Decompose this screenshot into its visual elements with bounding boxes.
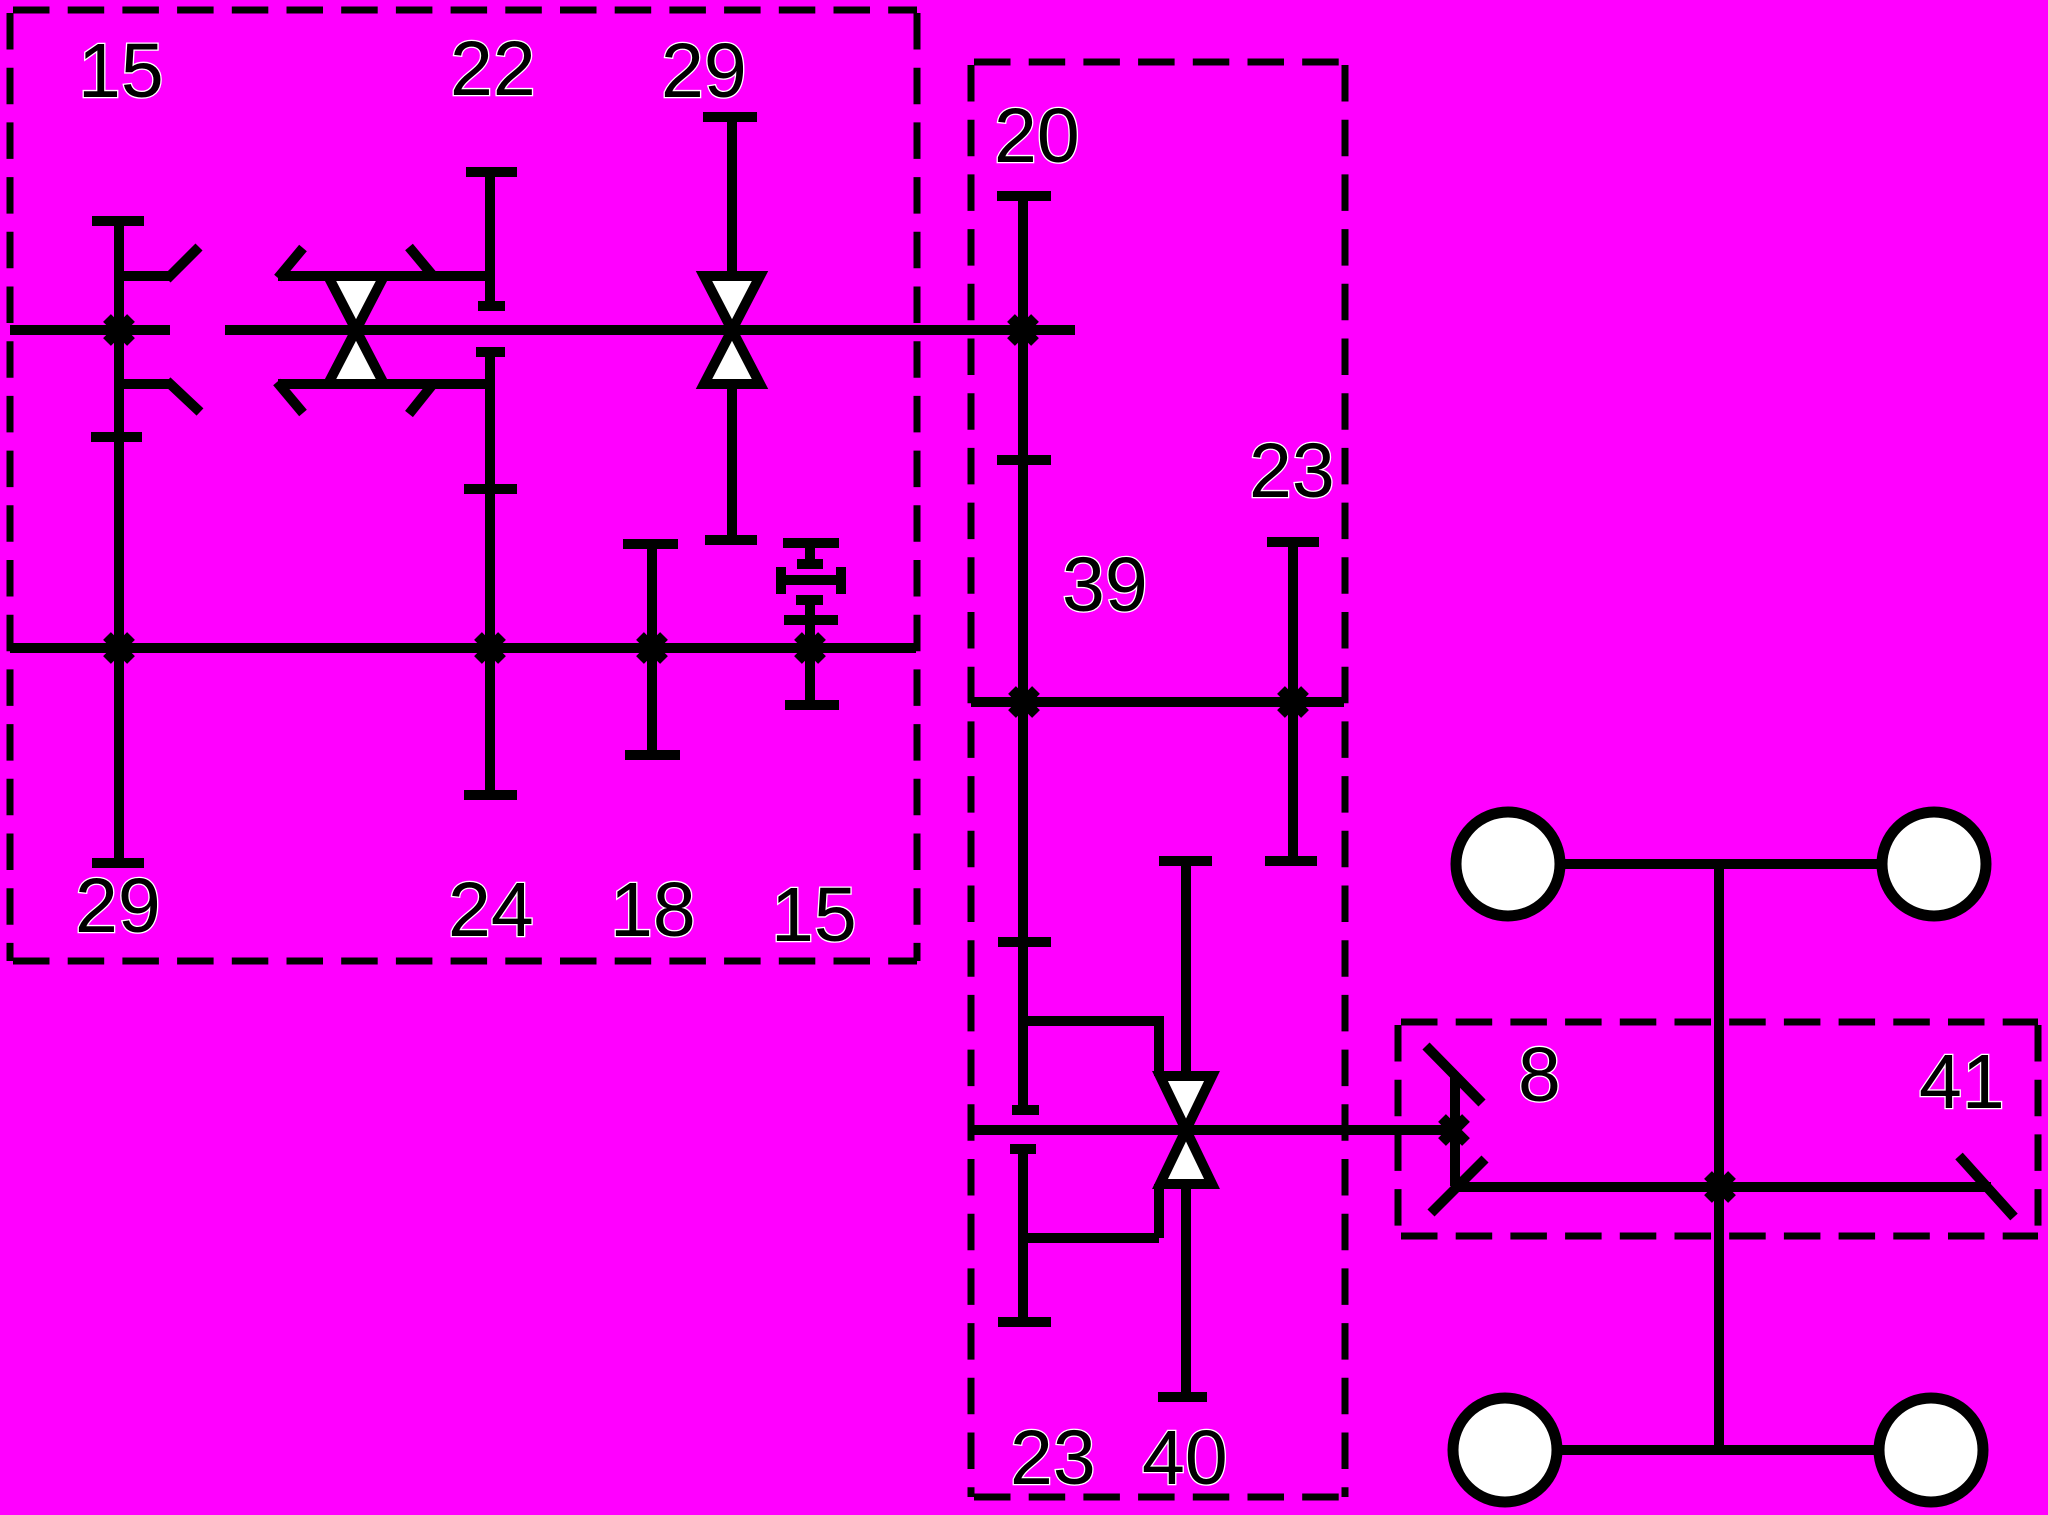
- wheel lower-left: [1453, 1398, 1557, 1502]
- gear 29 vertical: [703, 117, 757, 540]
- svg-text:29: 29: [661, 28, 747, 114]
- wire: input shaft segment B (y=330): [225, 325, 1075, 335]
- dashed box: gearbox unit 2 (middle): [971, 62, 1345, 1497]
- wheel upper-left: [1456, 812, 1560, 916]
- node countershaft/gear18: [640, 636, 664, 660]
- synchro 22 sleeve lines: [277, 247, 491, 414]
- synchro 22 bowtie: [328, 276, 384, 384]
- gear 15 on countershaft with coupler: [781, 543, 841, 705]
- axle: upper wheel axle: [1508, 859, 1934, 869]
- svg-text:29: 29: [75, 863, 161, 949]
- node shaft40/clutch8: [1442, 1118, 1466, 1142]
- lower hook link 23-40: [998, 1149, 1159, 1322]
- node shaft39/gear23: [1281, 690, 1305, 714]
- wheel upper-right: [1882, 812, 1986, 916]
- upper hook link 20-40: [1023, 1021, 1159, 1076]
- node input/gear20: [1011, 318, 1035, 342]
- node shaft41/driveline: [1708, 1175, 1732, 1199]
- dashed box: gearbox unit 1 (top-left): [10, 10, 917, 961]
- clutch 8: [1426, 1046, 1485, 1213]
- wire: shaft 41 (y=1187): [1457, 1182, 1991, 1192]
- svg-text:22: 22: [450, 26, 536, 112]
- axle: lower wheel axle: [1505, 1445, 1931, 1455]
- clutch 41 diagonal: [1959, 1156, 2014, 1217]
- axle: vertical driveline: [1714, 864, 1724, 1450]
- gear 23 vertical (upper): [1265, 542, 1319, 861]
- junction markers (x crosses): [107, 318, 1732, 1199]
- svg-text:41: 41: [1919, 1039, 2005, 1125]
- synchro 40 bowtie: [1160, 1076, 1212, 1184]
- dashed box: axle unit 3 (bottom-right): [1398, 1022, 2038, 1236]
- svg-text:15: 15: [771, 872, 857, 958]
- svg-text:8: 8: [1518, 1032, 1561, 1118]
- node countershaft/gear15: [798, 636, 822, 660]
- svg-text:20: 20: [994, 93, 1080, 179]
- gear 15/29 left vertical shaft: [91, 221, 144, 863]
- gear 40 vertical: [1158, 861, 1212, 1397]
- clutch jaws of gear 15 (open right): [124, 247, 200, 412]
- svg-text:23: 23: [1249, 428, 1335, 514]
- gear 22/24 vertical: [464, 172, 517, 795]
- wire: shaft of synchro 40 (y=1130): [971, 1125, 1449, 1135]
- svg-text:18: 18: [610, 867, 696, 953]
- node input/gear15: [107, 318, 131, 342]
- gear 20 vertical shaft: [997, 196, 1051, 1110]
- svg-text:15: 15: [78, 28, 164, 114]
- wire: countershaft (y=648): [10, 643, 916, 653]
- svg-text:40: 40: [1142, 1415, 1228, 1501]
- wheel lower-right: [1879, 1398, 1983, 1502]
- svg-text:24: 24: [448, 867, 534, 953]
- wire: shaft 39 (y=702): [971, 697, 1344, 707]
- svg-text:39: 39: [1062, 542, 1148, 628]
- gear 18 vertical: [623, 544, 680, 755]
- wire: input shaft segment A (y=330): [10, 325, 170, 335]
- node countershaft/gear29: [107, 636, 131, 660]
- synchro 29 bowtie: [704, 276, 760, 384]
- node shaft39/gear20: [1012, 690, 1036, 714]
- node countershaft/gear24: [478, 636, 502, 660]
- svg-text:23: 23: [1010, 1415, 1096, 1501]
